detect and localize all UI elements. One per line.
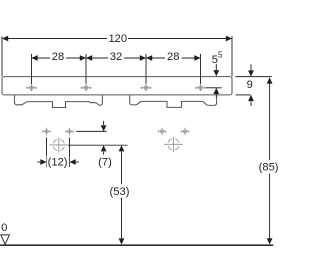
dimension 28 (right) — [146, 57, 201, 59]
drain symbol right — [164, 137, 183, 152]
svg-text:(53): (53) — [110, 186, 130, 198]
dimension (7): bolt line to drain line — [68, 121, 127, 155]
svg-text:(12): (12) — [48, 157, 68, 169]
dimension row extension lines down to tap holes — [32, 54, 201, 84]
dimension 9 (rim height, right side) — [236, 64, 272, 106]
svg-text:9: 9 — [247, 79, 253, 91]
tap hole crosshairs on rim — [26, 84, 206, 91]
svg-text:120: 120 — [108, 33, 127, 45]
fixing bolt crosshairs (left pair) — [42, 128, 74, 136]
dimension (12) under left bolts — [37, 138, 79, 168]
svg-text:0: 0 — [1, 222, 7, 234]
drain symbol left (dashed circle crosshair) — [49, 138, 68, 153]
left bowl outline — [15, 95, 103, 108]
dimension "120" — [2, 36, 232, 76]
svg-text:(7): (7) — [98, 157, 112, 169]
dimension (53): drain line to floor — [121, 151, 123, 238]
dimension 28 (left) — [32, 57, 87, 59]
svg-text:28: 28 — [167, 51, 179, 63]
dimension 32 (middle) — [86, 57, 146, 59]
svg-text:28: 28 — [52, 51, 64, 63]
dimension (85) vertical right — [269, 83, 271, 238]
right bowl outline — [130, 95, 217, 108]
fixing bolt crosshairs (right pair) — [158, 128, 190, 136]
floor line — [0, 244, 273, 246]
svg-text:(85): (85) — [259, 161, 279, 173]
svg-text:32: 32 — [110, 51, 122, 63]
washbasin rim (front view) — [2, 77, 232, 95]
